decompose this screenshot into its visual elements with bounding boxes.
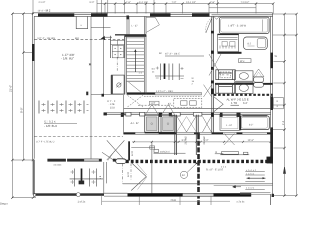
heavy dashed wall y161.4	[126, 160, 273, 163]
counter1 sink square	[219, 37, 238, 39]
dim extension line x97 top	[96, 0, 98, 14]
svg-text:20J M2: 20J M2	[185, 136, 188, 145]
svg-text:x 2x 4x: x 2x 4x	[237, 201, 246, 204]
dim extension line x101.6	[101, 0, 103, 14]
stair right rail	[143, 16, 145, 92]
svg-text:2'-8": 2'-8"	[210, 1, 215, 4]
bathtub 2	[240, 116, 269, 130]
locker unit 2x2	[112, 45, 123, 57]
tub2 dark left jamb	[239, 116, 241, 131]
right dim vertical x296.5	[296, 14, 298, 196]
toilet 2 bowl	[254, 83, 264, 88]
closet box 2	[161, 115, 175, 132]
top wall window sill mid	[171, 14, 193, 16]
svg-text:AJ - 87: AJ - 87	[131, 122, 140, 125]
wall stub T4 nub	[169, 113, 172, 117]
garage corner hook	[33, 194, 36, 197]
bottom-left room top wall dark seg A	[47, 159, 66, 162]
porch vertical x101.7	[101, 196, 103, 205]
svg-text:4/7' 3" - 1/8: E: 4/7' 3" - 1/8: E	[165, 53, 180, 56]
top wall inner line	[34, 15, 273, 17]
interior wall x91	[90, 16, 92, 158]
closet bottom dark line	[145, 132, 175, 133]
window tag underline 2	[215, 153, 224, 155]
utility room bottom wall	[104, 112, 124, 114]
svg-text:10' 4" - M 2: 10' 4" - M 2	[38, 8, 51, 12]
top wall dark segment 2	[91, 13, 108, 16]
hall cased opening band y92.5-95	[155, 93, 202, 95]
schedule table rows right porch	[245, 172, 264, 190]
svg-text:1 of 2x: 1 of 2x	[78, 201, 86, 204]
wall y133 dark seg 2	[159, 133, 176, 135]
dim extension line x33 top	[32, 0, 34, 14]
framing fixture dash row upper	[42, 105, 89, 111]
left dim vertical x23.4	[22, 14, 24, 160]
utility corner nub	[121, 112, 124, 115]
bifold V door closet2	[162, 105, 175, 115]
top wall second face line right	[212, 14, 273, 16]
counter1 dark top edge	[218, 34, 239, 35]
shelf divider	[116, 40, 118, 44]
corridor wall y108.3	[124, 107, 271, 109]
right wall inner line	[270, 16, 272, 163]
porch vertical x211	[210, 197, 212, 205]
right dim connector y129.7	[270, 129, 285, 131]
door X swing right bedroom1	[209, 54, 221, 76]
toilet 2 triangle shower	[253, 69, 264, 77]
top wall dark segment 1	[38, 13, 74, 16]
desk inner marks	[181, 101, 197, 105]
dresser 2	[216, 83, 236, 93]
door V swing hallway right	[214, 97, 223, 112]
wall x211.8 dark node 1	[211, 51, 214, 54]
wall stub T5	[211, 112, 214, 117]
svg-text:9'-0": 9'-0"	[20, 107, 24, 113]
right dim connector y61.4	[273, 60, 284, 62]
room L-67 box	[220, 116, 240, 131]
door X swing bedroom right	[203, 117, 212, 133]
left dim line y13.7	[12, 13, 33, 15]
right wall dark segment 1	[270, 53, 273, 69]
left dim vertical x12	[11, 14, 13, 198]
dim extension line x273.2	[272, 4, 274, 14]
closet rod symbol hall	[155, 64, 184, 81]
dim extension line x115.1	[114, 4, 116, 14]
corridor wall y112.8	[124, 112, 271, 114]
wall x211.8 dark node 3	[211, 81, 214, 84]
porch left arrow	[233, 186, 242, 188]
interior wall y94.4 left	[91, 93, 125, 95]
desk dashed box	[174, 98, 202, 107]
dim extension line x217.6	[217, 0, 219, 14]
cabinet dashed box right	[220, 72, 231, 78]
porch wall vertical x270.4 to bottom	[269, 194, 271, 205]
svg-text:- 1/8: 8UJ: - 1/8: 8UJ	[44, 124, 58, 128]
svg-text:2'-4 0": 2'-4 0"	[39, 1, 46, 4]
dim extension line x182.5	[182, 4, 184, 14]
wall stub T7	[237, 112, 241, 117]
garage rod plus marks	[71, 170, 96, 184]
hall wall y56	[165, 55, 204, 57]
closet L-37 bottom wall	[115, 34, 146, 36]
wall x91 jamb mark	[86, 92, 88, 96]
svg-text:xx xxxx: xx xxxx	[54, 163, 63, 166]
wall y133 dark seg 1	[124, 133, 136, 135]
window tag box right outside	[274, 98, 284, 109]
WH room box	[112, 75, 125, 94]
short line y37	[105, 36, 113, 38]
svg-text:7'-0": 7'-0"	[172, 1, 177, 4]
bottom-left dim line y197.6	[12, 197, 36, 199]
bottom wall opening gray	[183, 193, 214, 196]
svg-text:1 TH: 1 TH	[231, 101, 237, 105]
bottom wall white notch circle	[76, 193, 80, 197]
fine dashed line y96.2	[144, 95, 202, 97]
right wall outer line	[272, 13, 274, 196]
svg-text:15U: 15U	[110, 107, 115, 110]
right dim connector y35	[273, 34, 297, 36]
pill column at entry	[116, 159, 126, 164]
W tag box mid	[239, 59, 252, 63]
svg-text:1'-2: 1'-2	[282, 120, 285, 125]
svg-text:10'-6": 10'-6"	[248, 139, 254, 142]
right dim connector y148	[273, 147, 284, 149]
corridor wall y114.7	[124, 114, 271, 116]
closet shelf stack walls	[111, 36, 125, 58]
dash-dot vertical x122.5 entry	[122, 163, 124, 183]
door jamb cap x197.3	[193, 113, 202, 117]
entry wall x151.9	[151, 142, 153, 194]
bottom wall black right	[214, 193, 252, 196]
right dim connector y83	[273, 82, 284, 84]
door X swing right bedroom2	[224, 133, 235, 145]
DIMS	[12, 0, 296, 198]
svg-text:L - 37: L - 37	[132, 25, 139, 28]
wall y133 dark seg 4	[212, 133, 223, 135]
svg-text:21'-6": 21'-6"	[9, 85, 13, 92]
corridor dashed line with tag	[138, 104, 173, 106]
wall stub T3	[159, 112, 162, 117]
dim line y141.9 interior	[132, 141, 271, 143]
leader line from circle	[187, 163, 197, 173]
wall y134.2	[124, 133, 271, 135]
tub1 inner end line	[262, 20, 264, 32]
stair top wall dark	[125, 35, 147, 37]
dim extension line x105	[104, 4, 106, 14]
counter1 tick marks	[220, 46, 235, 49]
rotated dim texts	[9, 85, 286, 179]
door X swing bath mid	[204, 85, 212, 97]
right dim connector y105	[273, 104, 285, 106]
door jamb x196.5	[195, 115, 197, 155]
corner dark node bottom right	[272, 194, 274, 197]
dim extension line x209	[208, 4, 210, 14]
svg-text:1'-6": 1'-6"	[126, 1, 131, 4]
right dim connector y14	[273, 13, 297, 15]
svg-text:U 7' F - L7E 8U J: U 7' F - L7E 8U J	[36, 141, 55, 144]
WH circle symbol	[117, 83, 121, 87]
garage door swing diagonal	[102, 152, 113, 159]
stair landing line	[127, 80, 145, 82]
svg-text:5'-2 1/2": 5'-2 1/2"	[139, 1, 148, 4]
door dashed X hall	[128, 95, 144, 107]
door swing top-right bedroom	[206, 17, 212, 33]
bottom-left room top wall dark seg C	[99, 159, 102, 162]
stair handrail center line with arrow	[134, 51, 136, 73]
svg-text:20J M2: 20J M2	[203, 136, 206, 145]
garage rod symbol	[70, 169, 103, 187]
porch line y185.4	[214, 184, 273, 186]
porch line below y201.2	[102, 200, 230, 202]
wall stub T1 marker	[126, 112, 131, 116]
interior dim ticks y141.9	[133, 141, 272, 143]
bottom wall black mid	[128, 193, 183, 196]
svg-text:L - 67: L - 67	[226, 124, 233, 127]
door jamb x175.5	[175, 115, 177, 155]
STAIR	[125, 16, 146, 94]
tick marks right dim lines	[283, 13, 297, 197]
dashed line big room lower	[35, 135, 124, 137]
wall x211.8 door jamb nub	[211, 31, 214, 34]
framing fixture plus marks	[44, 103, 80, 112]
top wall dark segment 3	[150, 13, 171, 16]
locker cell dots	[115, 48, 122, 55]
left wall inner line	[33, 16, 35, 158]
bottom-left room top window	[84, 159, 99, 162]
right wall dark segment 2	[270, 96, 273, 110]
svg-text:x 2 x 1 x 2: x 2 x 1 x 2	[246, 169, 257, 172]
dresser 1	[216, 70, 236, 80]
L-67 corner stubs	[220, 114, 223, 117]
bottom wall garage dark	[34, 193, 105, 196]
dimension arrow in table	[247, 177, 266, 179]
tick marks left dim line	[11, 13, 34, 199]
wall stub T6	[220, 112, 223, 117]
door opening V notch	[214, 16, 220, 19]
window tag underline 1	[154, 149, 186, 153]
svg-text:1 4FT - 3: 1/8 W: 1 4FT - 3: 1/8 W	[228, 24, 247, 27]
dim extension line x166	[165, 4, 167, 14]
porch line y183.8	[123, 183, 273, 185]
left dim line y160	[12, 159, 32, 161]
door jamb cap x175.5	[172, 113, 181, 117]
wall stub T0	[121, 112, 124, 117]
right dim connector y195.6	[273, 195, 296, 197]
left dim tick line y52.5	[23, 52, 32, 54]
dim extension line x107.8	[107, 0, 109, 14]
wall y133 dark seg 6	[267, 133, 273, 135]
stair up diagonal below landing	[129, 82, 143, 93]
garage rod bold stroke	[81, 169, 83, 184]
svg-text:W x: W x	[240, 60, 245, 63]
svg-text:1 x 2 x 1: 1 x 2 x 1	[246, 172, 255, 175]
svg-text:x 1 x 2 x: x 1 x 2 x	[246, 187, 255, 190]
closet jamb dark top	[126, 16, 129, 20]
right wall dark segment 3	[270, 127, 273, 163]
top wall outer line	[32, 12, 272, 14]
door V swing entry french	[131, 163, 146, 191]
rod plus marks hall	[156, 67, 184, 79]
rod bold bar hall	[164, 64, 166, 80]
stair treads	[127, 38, 145, 79]
WH room dark jamb	[111, 75, 113, 94]
dim extension line x137	[136, 4, 138, 14]
shelf wall y27.5	[91, 27, 111, 29]
svg-text:7'-0 1/2": 7'-0 1/2"	[241, 1, 250, 4]
central thick vertical wall x198.5	[197, 134, 200, 205]
left wall dark segment	[32, 44, 35, 61]
garage rod dark foot	[79, 181, 85, 185]
svg-text:13'-1 1/2": 13'-1 1/2"	[186, 1, 196, 4]
wall y133 dark seg 3	[194, 133, 200, 135]
circled 22 label	[180, 171, 187, 178]
door leaf diagonal lower	[138, 177, 147, 190]
svg-text:22x8: 22x8	[171, 199, 177, 202]
top wall dark segment 4	[192, 13, 210, 16]
dim sub line y7.8	[209, 7, 256, 9]
sink box 2	[235, 82, 253, 93]
door X swing entry left	[107, 140, 125, 160]
svg-text:x 1 x: x 1 x	[221, 166, 227, 169]
bedroom wall x213.6	[213, 16, 215, 134]
bottom-left room top wall dark seg D	[113, 159, 116, 162]
vanity counter 1	[218, 34, 239, 51]
svg-text:6 2': 6 2'	[243, 101, 248, 105]
dim extension line x124.6	[124, 0, 126, 14]
down arrow on right dim x284.5	[283, 167, 285, 174]
svg-text:xxAxJx x': xxAxJx x'	[160, 150, 170, 153]
dim extension line x256	[255, 4, 257, 14]
entry shelf line y147.5	[131, 147, 154, 149]
tub2 dark top edge	[242, 115, 267, 116]
tick marks top dim row	[104, 2, 275, 4]
entry jamb dark	[128, 141, 130, 160]
door leaf diagonal upper	[137, 164, 147, 176]
shelf line y40.3	[111, 39, 125, 41]
closet L-37 left wall	[127, 16, 129, 34]
door V swing bedroom left	[177, 117, 196, 133]
window tag underline 3 long	[220, 152, 249, 155]
sink box 1	[235, 71, 253, 81]
wall y82.9 dark	[215, 83, 273, 85]
bottom wall thin mid	[104, 193, 128, 196]
stair left rail	[124, 36, 126, 95]
toilet 1	[244, 37, 268, 49]
porch corner line y192.6 right	[240, 192, 270, 194]
stacked label mid hall	[192, 77, 195, 86]
svg-text:4J 8: 4J 8	[131, 151, 134, 156]
wall y51.8 dark bathroom divider	[218, 52, 242, 54]
bottom-left room right wall	[104, 162, 107, 193]
toilet 2 tank	[254, 77, 264, 82]
WALLS	[32, 13, 272, 196]
porch corner line y194.2 right	[240, 193, 270, 195]
bifold V door closet1	[145, 105, 158, 115]
porch vertical x139.2	[138, 197, 140, 205]
dimension line top row	[97, 3, 273, 5]
hall wall y92.6 dark	[127, 92, 155, 94]
framing fixture vertical bars	[39, 101, 84, 114]
wall stub T2 marker	[140, 112, 145, 116]
svg-text:U/7' 4" - 1/8: 80J: U/7' 4" - 1/8: 80J	[38, 37, 56, 40]
shelf line y44.7	[111, 44, 125, 46]
top-left small closet	[76, 16, 87, 28]
interior wall x123.6	[123, 95, 125, 134]
wall y132.5	[124, 132, 271, 134]
interior wall x103.7	[103, 16, 105, 94]
bathtub 1 top right	[219, 17, 269, 33]
dashed line big room upper	[35, 39, 125, 41]
dash-dot vertical x117.2	[116, 57, 118, 72]
svg-text:9'-0": 9'-0"	[90, 1, 95, 4]
svg-text:4J 8: 4J 8	[127, 172, 130, 177]
underline mark	[44, 123, 77, 125]
closet box 1	[145, 115, 159, 132]
top wall window sill left	[74, 14, 91, 16]
bottom-left room top wall dark seg B	[67, 159, 84, 162]
svg-text:1 FT: 1 FT	[151, 102, 156, 105]
svg-text:8 2": 8 2"	[249, 124, 253, 127]
bedroom wall x211.8	[211, 16, 213, 134]
left wall outer line	[31, 13, 33, 160]
dim extension line x154	[153, 0, 155, 14]
svg-text:Dwg x: Dwg x	[0, 202, 8, 206]
svg-text:- 1/8: 8U": - 1/8: 8U"	[61, 57, 74, 61]
heavy dashed wall right solid end	[267, 157, 273, 164]
wall y133 dark seg 5	[237, 133, 243, 135]
wall x211.8 dark node 4	[211, 89, 214, 95]
bottom-left room left wall thick gray	[33, 160, 35, 195]
right dim vertical x284.5	[284, 14, 286, 196]
closet L-37 door pentagon	[146, 17, 159, 32]
dim extension line x146	[145, 4, 147, 14]
porch vertical x180	[179, 197, 181, 205]
wall x211.8 dark node 2	[211, 67, 214, 70]
dash-dot vertical x131 entry	[130, 164, 132, 180]
svg-text:4 FT x 2" - 1/8 E: 4 FT x 2" - 1/8 E	[156, 90, 174, 93]
bath dashed dark wall y94.5 right	[214, 94, 273, 96]
svg-text:R: 4 F - E 1/2 E: R: 4 F - E 1/2 E	[206, 168, 224, 171]
dashed line arrowhead	[101, 36, 106, 40]
svg-text:8 2: 8 2	[248, 43, 252, 46]
